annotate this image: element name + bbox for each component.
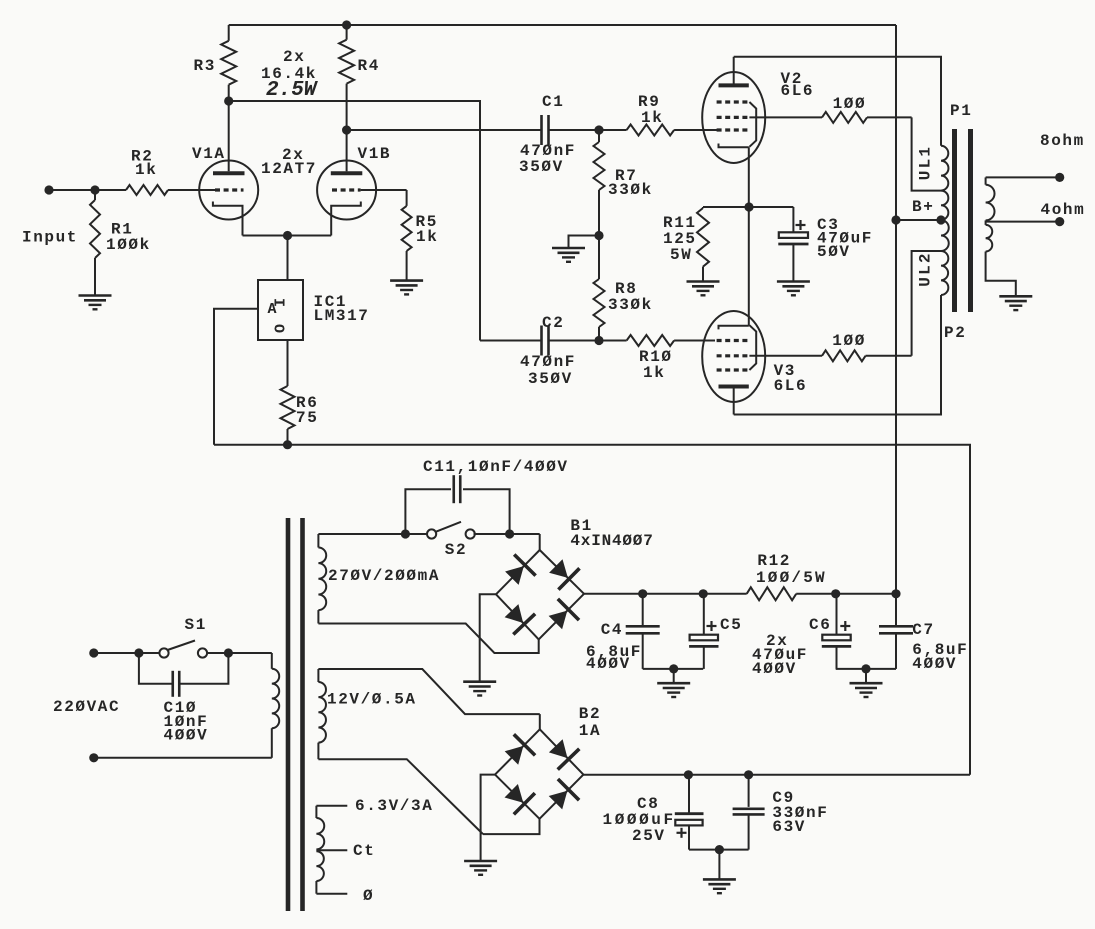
ground under R11 <box>687 282 720 296</box>
svg-text:R4: R4 <box>358 57 380 75</box>
triode V1B <box>317 130 391 236</box>
svg-text:25V: 25V <box>632 827 666 845</box>
svg-text:35ØV: 35ØV <box>519 158 564 176</box>
capacitor C2 <box>520 314 576 388</box>
svg-text:22ØVAC: 22ØVAC <box>53 698 120 716</box>
capacitor C3 <box>778 207 873 282</box>
resistor R3 <box>194 25 237 101</box>
ground C4 C5 <box>657 683 690 697</box>
svg-text:1ØØ: 1ØØ <box>832 332 866 350</box>
svg-text:1ØØk: 1ØØk <box>106 236 151 254</box>
wire B1 minus to ground <box>480 594 496 681</box>
label Input <box>22 229 78 247</box>
svg-text:1k: 1k <box>643 364 665 382</box>
label 2x 16.4k 2.5W <box>261 48 319 102</box>
svg-text:I: I <box>272 298 289 307</box>
ground B2 minus <box>464 861 497 875</box>
svg-text:8ohm: 8ohm <box>1040 132 1085 150</box>
svg-text:R12: R12 <box>757 552 791 570</box>
resistor R5 <box>361 190 439 281</box>
capacitor C8 <box>603 775 704 850</box>
resistor R6 <box>281 340 319 445</box>
resistor R4 <box>339 25 380 130</box>
svg-text:V1B: V1B <box>358 145 392 163</box>
wire 8ohm tap <box>986 132 1085 182</box>
bridge rectifier B2 <box>483 705 601 834</box>
svg-text:1ØØ: 1ØØ <box>833 95 867 113</box>
svg-text:4ØØV: 4ØØV <box>586 655 631 673</box>
svg-text:2x: 2x <box>283 48 305 66</box>
wire B+ rail <box>895 25 897 594</box>
node R7 R8 junction <box>594 231 603 240</box>
wire V1A plate to C2 <box>229 101 480 341</box>
svg-text:O: O <box>273 324 290 333</box>
bridge rectifier B1 <box>496 517 654 639</box>
svg-text:12AT7: 12AT7 <box>261 160 317 178</box>
regulator IC1 LM317 <box>258 280 370 340</box>
svg-text:C5: C5 <box>720 616 742 634</box>
svg-text:5W: 5W <box>670 246 692 264</box>
wire B+ tap <box>891 198 945 225</box>
svg-text:1k: 1k <box>135 161 157 179</box>
wire V1B plate to C1 <box>347 129 542 131</box>
svg-text:4ØØV: 4ØØV <box>912 655 957 673</box>
capacitor C7 <box>879 594 968 673</box>
wire input to R2 <box>49 185 126 194</box>
svg-text:R3: R3 <box>194 57 216 75</box>
wire secondary to ground <box>986 252 1016 297</box>
svg-text:UL2: UL2 <box>917 251 935 286</box>
svg-text:C4: C4 <box>601 621 623 639</box>
svg-text:V1A: V1A <box>192 145 226 163</box>
node cathode junction V2 V3 <box>744 202 753 211</box>
capacitor C4 <box>586 594 660 673</box>
wire R11 C3 rail <box>703 206 793 208</box>
wire 6.3V top lead <box>316 797 433 815</box>
wire 12V top lead <box>318 669 539 714</box>
node input terminal <box>44 185 53 194</box>
resistor 100 V3 screen <box>749 332 911 361</box>
ground under R1 <box>79 296 112 310</box>
label 2x 470uF 400V <box>752 632 808 678</box>
wire V3 anode to P2 <box>734 295 941 415</box>
wire S2 to bridge <box>474 529 540 538</box>
svg-text:6.3V/3A: 6.3V/3A <box>355 797 433 815</box>
wire top rail <box>229 20 896 29</box>
ground under C3 <box>777 282 810 296</box>
label 220VAC <box>53 698 120 716</box>
transformer T1 core <box>288 518 303 911</box>
svg-text:2.5W: 2.5W <box>266 79 319 102</box>
wire 6.3V center tap <box>316 842 375 860</box>
svg-text:63V: 63V <box>772 818 806 836</box>
capacitor C9 <box>733 775 829 850</box>
capacitor C6 <box>809 594 851 669</box>
ground C6 C7 <box>850 683 883 697</box>
resistor R9 <box>627 93 675 136</box>
wire UL2 tap <box>912 251 941 356</box>
svg-text:C6: C6 <box>809 616 831 634</box>
transformer OPT core <box>955 129 971 312</box>
wire 220VAC top <box>94 648 160 657</box>
node V1B plate junction <box>342 125 351 134</box>
winding 6.3V <box>316 806 324 894</box>
svg-text:47ØnF: 47ØnF <box>520 353 576 371</box>
ground B1 minus <box>463 682 496 696</box>
transformer T1 primary <box>272 653 279 758</box>
winding 270V <box>318 534 440 624</box>
ground speaker return <box>999 296 1032 310</box>
wire C8 C9 ground <box>689 845 749 879</box>
svg-text:C1: C1 <box>542 93 564 111</box>
capacitor C1 <box>519 93 576 176</box>
wire cathodes junction <box>243 231 332 280</box>
winding 12V <box>318 669 416 759</box>
beam tetrode V2 <box>702 57 814 207</box>
svg-text:C7: C7 <box>912 621 934 639</box>
svg-text:B+: B+ <box>912 198 934 216</box>
wire C4 C5 ground <box>643 664 704 683</box>
svg-text:P2: P2 <box>944 324 966 342</box>
wire IC1 adjust <box>214 309 258 445</box>
resistor R8 <box>594 236 653 341</box>
svg-text:4ØØV: 4ØØV <box>752 660 797 678</box>
svg-text:C11,1ØnF/4ØØV: C11,1ØnF/4ØØV <box>423 458 569 476</box>
svg-text:27ØV/2ØØmA: 27ØV/2ØØmA <box>328 567 440 585</box>
capacitor C11 <box>405 458 568 534</box>
svg-text:33Øk: 33Øk <box>608 181 653 199</box>
svg-text:6L6: 6L6 <box>774 377 808 395</box>
svg-text:S1: S1 <box>185 616 207 634</box>
transformer OPT secondary winding <box>986 177 995 251</box>
svg-text:1A: 1A <box>579 722 601 740</box>
svg-text:4ØØV: 4ØØV <box>164 727 209 745</box>
svg-text:C2: C2 <box>542 314 564 332</box>
wire 6.3V bottom lead <box>316 887 374 905</box>
resistor R12 <box>747 552 827 600</box>
resistor R2 <box>126 148 168 196</box>
resistor R1 <box>90 190 151 296</box>
label 2x 12AT7 <box>261 146 317 178</box>
node R3 bottom junction <box>224 96 233 105</box>
ground C8 C9 <box>703 879 736 893</box>
svg-text:S2: S2 <box>445 541 467 559</box>
switch S2 <box>405 522 474 559</box>
svg-text:Ø: Ø <box>363 887 374 905</box>
wire C2 to R10 <box>549 336 627 345</box>
wire V2 anode to P1 <box>734 57 941 146</box>
svg-text:75: 75 <box>296 409 318 427</box>
wire 270V bottom lead <box>318 624 538 654</box>
beam tetrode V3 <box>702 207 807 415</box>
svg-text:1k: 1k <box>416 228 438 246</box>
svg-text:LM317: LM317 <box>314 307 370 325</box>
svg-text:P1: P1 <box>950 102 972 120</box>
wire C1 to R9 <box>549 125 627 134</box>
wire B2 output rail <box>583 770 970 779</box>
svg-text:6L6: 6L6 <box>781 82 815 100</box>
svg-text:Input: Input <box>22 229 78 247</box>
wire junction to ground <box>569 236 600 249</box>
switch S1 <box>159 616 207 658</box>
node 220VAC top terminal <box>89 648 98 657</box>
wire B2 minus to ground <box>481 775 495 861</box>
wire R9 to V2 grid <box>674 129 717 131</box>
svg-text:35ØV: 35ØV <box>528 370 573 388</box>
svg-text:12V/Ø.5A: 12V/Ø.5A <box>327 691 417 709</box>
wire UL1 tap <box>912 117 941 190</box>
wire 270V top lead <box>318 529 410 538</box>
wire 4ohm tap <box>986 201 1086 226</box>
ground mid divider <box>552 248 585 262</box>
svg-text:1ØØ/5W: 1ØØ/5W <box>756 569 827 587</box>
wire 220VAC bottom <box>89 753 272 762</box>
node R6 bottom <box>283 440 292 449</box>
svg-text:1k: 1k <box>641 109 663 127</box>
svg-text:Ct: Ct <box>353 842 375 860</box>
wire S1 to primary <box>207 648 272 657</box>
transformer OPT primary winding <box>917 102 973 342</box>
wire R10 to V3 grid <box>674 340 715 342</box>
svg-text:33Øk: 33Øk <box>608 296 653 314</box>
resistor R10 <box>627 335 675 382</box>
wire C6 C7 ground <box>836 664 896 683</box>
svg-text:4ohm: 4ohm <box>1041 201 1086 219</box>
wire feedback line <box>214 445 970 775</box>
wire C2 left <box>480 340 542 342</box>
ground under R5 <box>390 281 423 295</box>
resistor R11 <box>663 207 709 282</box>
svg-text:5ØV: 5ØV <box>817 243 851 261</box>
resistor 100 V2 screen <box>749 95 911 123</box>
capacitor C5 <box>689 594 742 669</box>
triode V1A <box>192 101 258 236</box>
wire R2 to V1A grid <box>168 189 215 191</box>
svg-text:UL1: UL1 <box>917 145 935 180</box>
capacitor C10 <box>139 653 229 745</box>
svg-text:B2: B2 <box>579 705 601 723</box>
resistor R7 <box>594 130 653 236</box>
svg-text:4xIN4ØØ7: 4xIN4ØØ7 <box>570 532 653 550</box>
wire B1 output rail <box>584 589 901 598</box>
wire 12V bottom lead <box>318 759 483 834</box>
